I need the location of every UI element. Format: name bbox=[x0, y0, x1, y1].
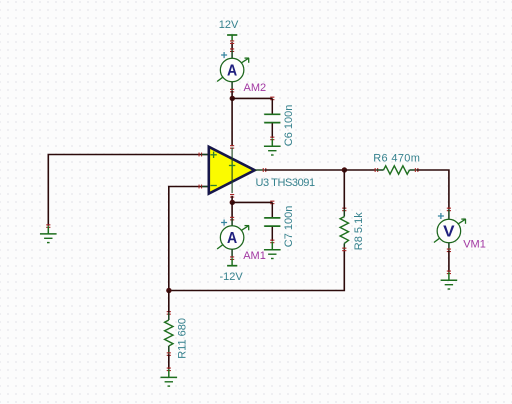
resistor R8 bbox=[340, 208, 348, 252]
svg-text:AM1: AM1 bbox=[243, 250, 266, 262]
voltage source -12V bbox=[227, 258, 237, 266]
ammeter AM1 bbox=[217, 217, 249, 260]
svg-text:V: V bbox=[443, 224, 455, 241]
ammeter AM2 bbox=[217, 48, 249, 92]
svg-text:-12V: -12V bbox=[220, 271, 244, 283]
ground below R11 bbox=[161, 368, 178, 387]
wire: R6 to VM1 bbox=[417, 170, 449, 209]
wire: opamp output to node C bbox=[265, 169, 345, 171]
wire: node A to opamp V+ pin bbox=[231, 98, 233, 146]
ground at non-inverting input bbox=[40, 224, 57, 242]
wire: feedback bottom net bbox=[169, 249, 344, 290]
voltage source 12V bbox=[227, 35, 237, 44]
resistor R11 bbox=[165, 311, 173, 356]
wire: node junction to R11 bbox=[168, 291, 170, 313]
node A junction (V+ rail) bbox=[230, 96, 235, 101]
ground below VM1 bbox=[441, 271, 458, 290]
svg-text:12V: 12V bbox=[219, 19, 239, 31]
wire: AM2 to node A bbox=[231, 91, 233, 99]
wire: non-inverting input net bbox=[48, 155, 208, 226]
ground below C6 bbox=[264, 138, 281, 155]
wire: node A to C6 bbox=[232, 97, 272, 99]
svg-text:A: A bbox=[227, 63, 238, 80]
ground below C7 bbox=[264, 241, 281, 258]
wire: VM1 to ground bbox=[448, 250, 450, 272]
wire: inverting input net bbox=[169, 187, 208, 291]
wire: opamp V- pin to node B bbox=[231, 196, 233, 203]
node B junction (V- rail) bbox=[230, 200, 235, 205]
svg-text:A: A bbox=[227, 230, 238, 247]
wire: R8 top to node C bbox=[343, 170, 345, 209]
op-amp U3 bbox=[199, 145, 267, 198]
capacitor C6 bbox=[264, 97, 280, 141]
svg-text:C7 100n: C7 100n bbox=[283, 206, 295, 248]
wire: node C to R6 bbox=[344, 169, 376, 171]
svg-text:R8 5.1k: R8 5.1k bbox=[353, 212, 365, 250]
wire: R11 to ground bbox=[168, 354, 170, 369]
voltmeter VM1 bbox=[434, 208, 466, 253]
node junction (feedback / R11) bbox=[166, 288, 171, 293]
node C junction (output) bbox=[342, 167, 347, 172]
capacitor C7 bbox=[264, 201, 280, 244]
svg-text:R11 680: R11 680 bbox=[177, 318, 189, 359]
wire: node B to C7 bbox=[232, 201, 272, 203]
svg-text:AM2: AM2 bbox=[244, 82, 267, 94]
wire: node B to AM1 bbox=[231, 202, 233, 218]
svg-text:R6 470m: R6 470m bbox=[373, 153, 420, 165]
svg-text:C6 100n: C6 100n bbox=[283, 105, 295, 147]
svg-text:U3 THS3091: U3 THS3091 bbox=[256, 177, 315, 189]
wire: 12V source to AM2 bbox=[231, 42, 233, 50]
resistor R6 bbox=[375, 166, 419, 174]
svg-text:VM1: VM1 bbox=[463, 238, 486, 250]
